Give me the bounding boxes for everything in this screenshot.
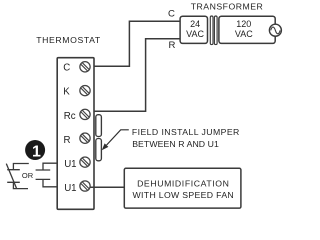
transformer core bar 2: [214, 16, 217, 45]
svg-text:OR: OR: [22, 171, 34, 180]
svg-text:BETWEEN R AND U1: BETWEEN R AND U1: [132, 139, 219, 149]
transformer 24 VAC primary box: [180, 16, 207, 43]
svg-text:C: C: [168, 9, 175, 20]
svg-text:TRANSFORMER: TRANSFORMER: [191, 2, 264, 12]
svg-text:VAC: VAC: [235, 29, 253, 39]
terminal U1 upper screw: [80, 157, 90, 167]
terminal R screw: [80, 133, 90, 143]
svg-text:DEHUMIDIFICATION: DEHUMIDIFICATION: [137, 178, 229, 188]
svg-text:R: R: [64, 135, 71, 146]
AC source symbol: [269, 24, 281, 36]
svg-text:K: K: [63, 87, 70, 98]
note marker 1: [25, 140, 45, 160]
terminal K screw: [80, 85, 90, 95]
dehumidification load box: [124, 168, 241, 208]
svg-text:U1: U1: [64, 159, 76, 170]
NO contact wired to U1 terminals: [36, 163, 58, 187]
NC contact alternative (external dehumidistat): [6, 164, 29, 189]
transformer 120 VAC secondary box: [219, 16, 275, 43]
svg-text:WITH LOW SPEED FAN: WITH LOW SPEED FAN: [133, 190, 235, 200]
thermostat terminal block: [57, 58, 94, 210]
wire C terminal to transformer: [90, 21, 180, 66]
field install jumper bar R to U1: [96, 139, 102, 161]
transformer core bar 1: [210, 16, 213, 45]
svg-text:24: 24: [190, 19, 200, 29]
terminal U1 lower screw: [80, 181, 90, 191]
jumper bar Rc to R: [96, 115, 102, 137]
svg-text:THERMOSTAT: THERMOSTAT: [36, 35, 101, 45]
callout arrow to field install jumper: [102, 130, 129, 151]
svg-text:FIELD INSTALL JUMPER: FIELD INSTALL JUMPER: [132, 127, 240, 137]
svg-text:1: 1: [32, 143, 41, 160]
svg-text:C: C: [63, 63, 70, 74]
svg-text:R: R: [169, 40, 176, 51]
svg-text:VAC: VAC: [186, 29, 204, 39]
terminal Rc screw: [80, 109, 90, 119]
svg-text:U1: U1: [64, 183, 76, 194]
wire R transformer to Rc terminal: [94, 39, 180, 112]
wire U1 lower to dehumidification box: [90, 186, 124, 188]
svg-text:120: 120: [236, 19, 251, 29]
terminal C screw: [80, 62, 90, 72]
svg-text:Rc: Rc: [64, 111, 76, 122]
